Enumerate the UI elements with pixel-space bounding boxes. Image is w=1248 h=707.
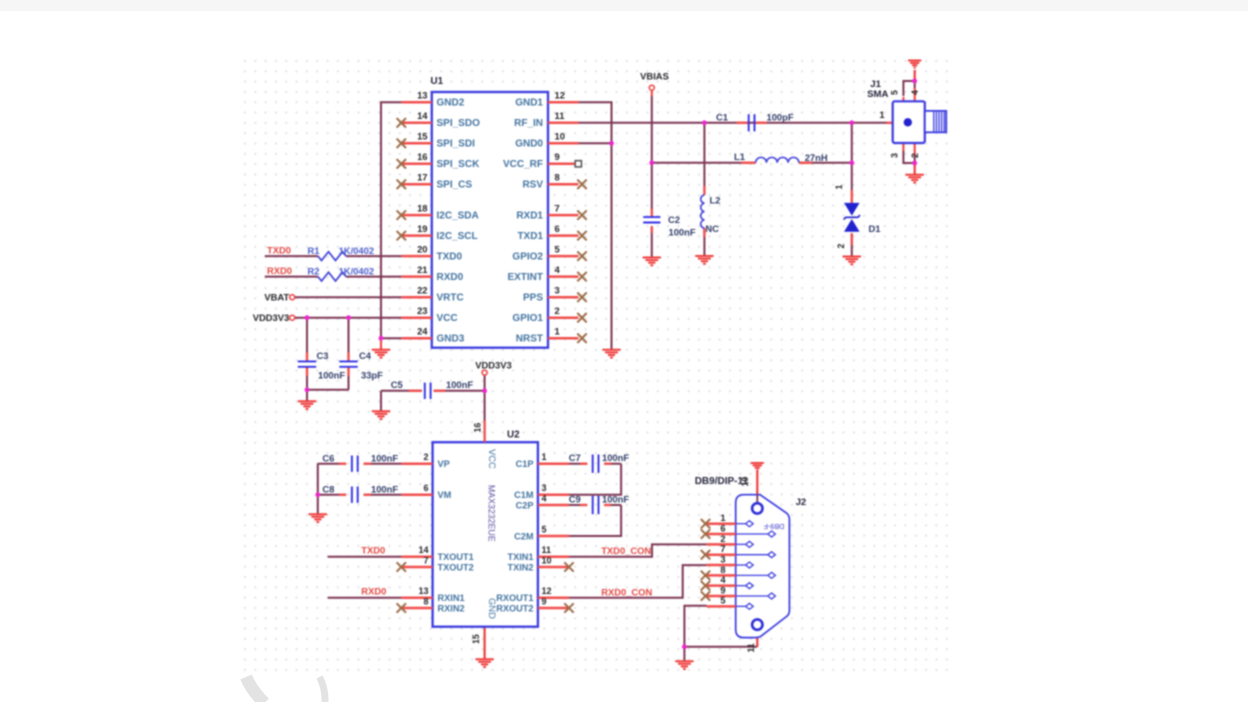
svg-text:19: 19	[417, 223, 427, 234]
svg-text:1K/0402: 1K/0402	[339, 245, 374, 256]
svg-text:1K/0402: 1K/0402	[339, 266, 374, 277]
svg-text:8: 8	[720, 565, 725, 575]
svg-text:14: 14	[417, 110, 428, 121]
svg-text:RXD0: RXD0	[267, 265, 292, 276]
svg-text:100pF: 100pF	[767, 111, 794, 122]
svg-text:VBIAS: VBIAS	[640, 71, 669, 82]
svg-text:5: 5	[720, 596, 725, 606]
svg-text:C4: C4	[359, 350, 372, 361]
svg-text:11: 11	[746, 643, 756, 652]
svg-text:16: 16	[417, 151, 427, 162]
svg-text:3: 3	[720, 554, 725, 564]
svg-text:12: 12	[555, 90, 565, 101]
svg-text:3: 3	[555, 284, 560, 295]
svg-text:13: 13	[417, 90, 427, 101]
svg-text:11: 11	[542, 545, 552, 555]
svg-text:L2: L2	[710, 195, 721, 206]
svg-text:18: 18	[417, 202, 427, 213]
svg-text:VDD3V3: VDD3V3	[253, 312, 289, 323]
svg-text:1: 1	[555, 325, 560, 336]
svg-text:C7: C7	[569, 452, 581, 463]
svg-text:20: 20	[417, 243, 427, 254]
svg-text:I2C_SCL: I2C_SCL	[437, 231, 478, 242]
svg-text:VM: VM	[438, 490, 452, 500]
svg-text:R2: R2	[308, 266, 320, 277]
svg-text:27nH: 27nH	[805, 152, 828, 163]
svg-text:VCC: VCC	[437, 313, 458, 324]
svg-text:TXD0: TXD0	[361, 544, 385, 555]
svg-text:TXOUT2: TXOUT2	[438, 562, 474, 572]
svg-text:C9: C9	[569, 493, 581, 504]
svg-text:GPIO1: GPIO1	[512, 313, 543, 324]
svg-text:RXOUT1: RXOUT1	[496, 593, 533, 603]
svg-text:6: 6	[423, 483, 428, 493]
svg-text:NRST: NRST	[516, 334, 543, 345]
svg-text:100nF: 100nF	[446, 379, 473, 390]
svg-text:100nF: 100nF	[371, 452, 398, 463]
svg-text:RXD0: RXD0	[437, 272, 464, 283]
svg-text:9: 9	[542, 596, 547, 606]
svg-text:EXTINT: EXTINT	[507, 272, 543, 283]
svg-text:SPI_CS: SPI_CS	[437, 180, 473, 191]
svg-text:C5: C5	[391, 379, 403, 390]
svg-text:TXD0: TXD0	[267, 244, 291, 255]
svg-text:6: 6	[555, 223, 560, 234]
svg-text:SPI_SDO: SPI_SDO	[437, 118, 481, 129]
svg-text:C1P: C1P	[516, 459, 534, 469]
svg-text:24: 24	[417, 325, 428, 336]
svg-text:4: 4	[910, 90, 920, 95]
svg-text:SPI_SDI: SPI_SDI	[437, 139, 476, 150]
svg-text:TXD1: TXD1	[517, 231, 543, 242]
svg-text:C1M: C1M	[514, 490, 534, 500]
svg-text:10: 10	[542, 555, 552, 565]
svg-text:3: 3	[890, 153, 900, 158]
svg-text:100nF: 100nF	[602, 452, 629, 463]
svg-text:2: 2	[720, 534, 725, 544]
svg-text:RXIN2: RXIN2	[438, 603, 465, 613]
svg-text:GND1: GND1	[515, 98, 543, 109]
svg-text:16: 16	[473, 423, 483, 433]
svg-text:C6: C6	[322, 452, 334, 463]
svg-text:10: 10	[740, 477, 750, 487]
svg-text:23: 23	[417, 305, 427, 316]
svg-text:I2C_SDA: I2C_SDA	[437, 211, 479, 222]
svg-text:8: 8	[423, 596, 428, 606]
svg-text:2: 2	[423, 452, 428, 462]
svg-text:RXD0_CON: RXD0_CON	[601, 586, 652, 597]
svg-text:SMA: SMA	[867, 89, 888, 100]
svg-text:2: 2	[555, 305, 560, 316]
svg-text:13: 13	[418, 586, 428, 596]
svg-text:TXD0_CON: TXD0_CON	[601, 545, 651, 556]
svg-text:NC: NC	[705, 223, 719, 234]
svg-text:C1: C1	[716, 111, 728, 122]
svg-text:SPI_SCK: SPI_SCK	[437, 159, 481, 170]
svg-text:7: 7	[423, 555, 428, 565]
svg-text:21: 21	[417, 264, 427, 275]
svg-text:RXIN1: RXIN1	[438, 593, 465, 603]
svg-text:33pF: 33pF	[361, 370, 383, 381]
svg-text:15: 15	[417, 131, 427, 142]
svg-text:3: 3	[542, 483, 547, 493]
svg-text:TXIN1: TXIN1	[507, 552, 533, 562]
svg-text:VCC: VCC	[487, 449, 498, 469]
svg-text:DB9-F: DB9-F	[763, 522, 784, 531]
svg-text:GND0: GND0	[515, 139, 543, 150]
svg-text:RXD1: RXD1	[516, 211, 543, 222]
svg-text:4: 4	[542, 493, 547, 503]
svg-text:PPS: PPS	[523, 293, 543, 304]
svg-text:8: 8	[555, 172, 560, 183]
svg-text:VBAT: VBAT	[264, 291, 289, 302]
svg-text:10: 10	[555, 131, 565, 142]
svg-text:100nF: 100nF	[371, 483, 398, 494]
svg-text:100nF: 100nF	[602, 493, 629, 504]
svg-text:12: 12	[542, 586, 552, 596]
svg-text:9: 9	[555, 151, 560, 162]
svg-text:RXOUT2: RXOUT2	[496, 603, 533, 613]
svg-text:MAX3232EUE: MAX3232EUE	[487, 485, 497, 542]
svg-text:1: 1	[879, 110, 884, 120]
svg-text:U2: U2	[507, 430, 520, 441]
svg-text:7: 7	[720, 544, 725, 554]
svg-text:TXIN2: TXIN2	[507, 562, 533, 572]
svg-text:100nF: 100nF	[318, 370, 345, 381]
svg-text:VP: VP	[438, 459, 450, 469]
svg-text:100nF: 100nF	[669, 227, 696, 238]
svg-text:5: 5	[555, 243, 560, 254]
svg-text:1: 1	[542, 452, 547, 462]
svg-text:4: 4	[720, 575, 726, 585]
svg-text:VRTC: VRTC	[437, 293, 464, 304]
svg-text:J2: J2	[796, 497, 807, 508]
svg-text:TXOUT1: TXOUT1	[438, 552, 474, 562]
svg-text:RXD0: RXD0	[361, 585, 386, 596]
svg-text:GPIO2: GPIO2	[512, 252, 543, 263]
svg-text:D1: D1	[869, 223, 881, 234]
svg-text:4: 4	[555, 264, 561, 275]
svg-text:11: 11	[555, 110, 565, 121]
svg-text:GND2: GND2	[437, 98, 465, 109]
svg-text:17: 17	[417, 172, 427, 183]
svg-text:2: 2	[910, 153, 920, 158]
svg-text:1: 1	[834, 185, 844, 190]
svg-text:L1: L1	[734, 151, 745, 162]
svg-text:RSV: RSV	[522, 180, 543, 191]
svg-text:C2P: C2P	[516, 500, 534, 510]
svg-text:9: 9	[720, 585, 725, 595]
svg-text:5: 5	[890, 90, 900, 95]
svg-text:14: 14	[418, 545, 428, 555]
svg-text:C3: C3	[317, 350, 329, 361]
svg-text:GND3: GND3	[437, 334, 465, 345]
svg-text:7: 7	[555, 202, 560, 213]
svg-text:2: 2	[836, 244, 846, 249]
svg-text:VDD3V3: VDD3V3	[475, 359, 511, 370]
svg-text:5: 5	[542, 524, 547, 534]
svg-text:VCC_RF: VCC_RF	[503, 159, 543, 170]
svg-text:R1: R1	[308, 245, 320, 256]
svg-text:6: 6	[720, 523, 725, 533]
svg-text:U1: U1	[431, 76, 444, 87]
svg-text:15: 15	[471, 634, 481, 644]
svg-text:1: 1	[720, 513, 725, 523]
svg-text:C2M: C2M	[514, 531, 534, 541]
svg-text:TXD0: TXD0	[437, 252, 463, 263]
svg-text:RF_IN: RF_IN	[514, 118, 543, 129]
svg-text:22: 22	[417, 284, 427, 295]
svg-text:C2: C2	[668, 214, 680, 225]
svg-text:C8: C8	[322, 483, 334, 494]
